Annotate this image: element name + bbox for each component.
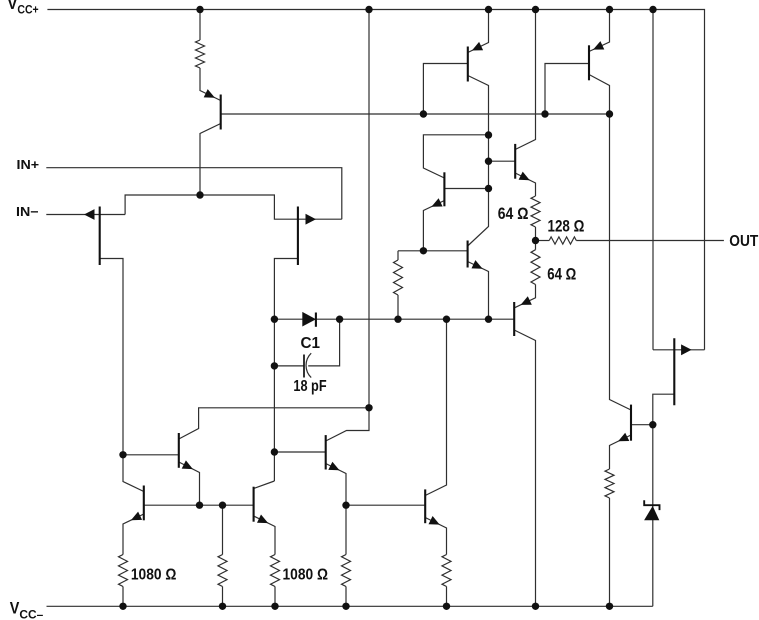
svg-text:IN−: IN− <box>16 205 39 219</box>
svg-text:64 Ω: 64 Ω <box>498 205 529 223</box>
svg-text:1080 Ω: 1080 Ω <box>131 566 177 583</box>
svg-text:64 Ω: 64 Ω <box>547 266 576 284</box>
svg-text:IN+: IN+ <box>17 158 40 172</box>
svg-text:18 pF: 18 pF <box>293 378 326 395</box>
svg-text:128 Ω: 128 Ω <box>548 217 585 235</box>
svg-text:C1: C1 <box>301 335 321 352</box>
svg-text:1080 Ω: 1080 Ω <box>283 566 329 583</box>
svg-text:OUT: OUT <box>729 233 758 250</box>
